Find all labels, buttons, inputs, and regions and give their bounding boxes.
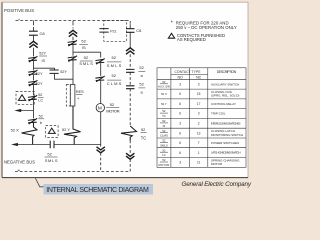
svg-text:52Y: 52Y (36, 72, 43, 76)
svg-text:52: 52 (162, 109, 166, 113)
coil 52X (bolt) (22, 123, 38, 145)
svg-text:52: 52 (141, 127, 145, 132)
table symbol column (158, 80, 170, 167)
svg-text:6: 6 (179, 102, 181, 106)
capacitor C8 (right) (126, 29, 135, 33)
branch to capacitor 52Y (34, 68, 55, 70)
svg-text:(SPRG. REL. SOL'D): (SPRG. REL. SOL'D) (211, 94, 239, 98)
motor M 52/MOTOR (96, 104, 104, 112)
svg-text:General Electric Company: General Electric Company (182, 181, 252, 188)
svg-text:3: 3 (198, 112, 200, 116)
contact 52/SMLS (motor leg) (95, 58, 104, 64)
wire (33, 85, 35, 95)
svg-text:P.D.: P.D. (110, 29, 117, 33)
svg-text:RES: RES (76, 90, 84, 94)
svg-text:SMLS: SMLS (160, 143, 168, 147)
capacitor P.D. (99, 29, 108, 32)
svg-text:52: 52 (110, 102, 115, 107)
wire (33, 100, 35, 118)
dashed wire (129, 141, 131, 154)
wire stub (dashed) (33, 23, 35, 27)
positive bus (16, 21, 131, 25)
contact 52/SMLS (left leg) (68, 56, 77, 62)
svg-text:POWER SWITCHES: POWER SWITCHES (211, 141, 239, 145)
svg-text:DESCRIPTION: DESCRIPTION (217, 70, 237, 74)
wire (72, 37, 74, 41)
svg-text:52Y: 52Y (39, 52, 46, 56)
svg-text:3: 3 (198, 82, 200, 86)
svg-text:2: 2 (198, 122, 200, 126)
svg-text:6: 6 (179, 151, 181, 155)
wire stub (dashed) (72, 23, 74, 29)
dashed box with triangle (SMLS) (46, 126, 59, 138)
lower rail with arrow (18, 144, 51, 146)
svg-text:1: 1 (198, 151, 200, 155)
svg-text:AS REQUIRED: AS REQUIRED (177, 37, 206, 42)
svg-text:LC: LC (38, 99, 43, 103)
svg-text:NC: NC (196, 75, 202, 79)
contact 52/CLMS (95, 76, 104, 82)
svg-text:52Y: 52Y (60, 70, 67, 74)
contact 52/b (28, 118, 37, 124)
table NO / NC values (179, 82, 200, 164)
svg-text:250 v – DC OPERATION ONLY: 250 v – DC OPERATION ONLY (176, 25, 237, 30)
wire (100, 81, 102, 104)
wire (33, 61, 35, 70)
svg-text:AUXILIARY SWITCH: AUXILIARY SWITCH (211, 82, 239, 86)
disconnect chevron up (middle) (69, 30, 77, 36)
svg-text:15: 15 (197, 92, 201, 96)
motor leg wire (100, 52, 102, 57)
callout leader (35, 178, 43, 187)
disconnect chevron up (right) (126, 48, 134, 55)
resistor RES with dashed shunt box (66, 85, 70, 107)
svg-text:52: 52 (162, 80, 166, 84)
svg-text:NO: NO (177, 75, 183, 79)
svg-text:13: 13 (197, 131, 201, 135)
svg-text:C8: C8 (136, 28, 142, 33)
svg-text:6: 6 (179, 141, 181, 145)
svg-text:TRIP COIL: TRIP COIL (211, 112, 226, 116)
arrow lead left (node) (17, 110, 34, 112)
svg-text:3: 3 (179, 161, 181, 165)
caption INTERNAL SCHEMATIC DIAGRAM (44, 184, 154, 195)
svg-text:52 Y: 52 Y (161, 102, 167, 106)
dashed drop to negative bus (100, 153, 102, 172)
svg-text:7: 7 (198, 141, 200, 145)
svg-text:17: 17 (197, 102, 201, 106)
wire (33, 35, 35, 41)
svg-text:3: 3 (179, 82, 181, 86)
svg-text:52: 52 (84, 55, 89, 60)
wire down to resistor (72, 61, 74, 85)
svg-text:b: b (40, 121, 42, 125)
svg-text:INTERNAL SCHEMATIC DIAGRAM: INTERNAL SCHEMATIC DIAGRAM (46, 187, 149, 194)
svg-text:LATCH CHECKING SWITCH: LATCH CHECKING SWITCH (211, 151, 241, 155)
dashed wire (129, 54, 131, 69)
wire (100, 63, 102, 76)
svg-text:TC: TC (162, 114, 166, 118)
svg-text:MOTOR: MOTOR (106, 108, 120, 113)
svg-text:52: 52 (139, 82, 144, 87)
svg-text:INTERLOCKING SWITCHES: INTERLOCKING SWITCHES (211, 121, 241, 125)
page sheet (2, 2, 248, 177)
svg-text:SMLS: SMLS (79, 61, 93, 66)
svg-text:52 X: 52 X (161, 92, 167, 96)
svg-text:3: 3 (179, 122, 181, 126)
svg-text:52: 52 (162, 148, 166, 152)
chevron down (motor leg) (97, 147, 105, 153)
dashed wire (129, 89, 131, 126)
svg-text:52: 52 (81, 38, 86, 43)
svg-text:CONTROL RELAY: CONTROL RELAY (211, 102, 236, 106)
note: triangle contacts (168, 33, 174, 38)
svg-text:6: 6 (179, 112, 181, 116)
wire + branch to motor leg (73, 45, 101, 56)
switch 52/SMLS plates on rail (50, 141, 54, 149)
svg-text:SMLS: SMLS (45, 158, 58, 163)
negative bus (18, 169, 20, 171)
capacitor C8 (29, 31, 38, 35)
svg-text:52: 52 (162, 119, 166, 123)
coil 52Y (bolt) (64, 106, 81, 145)
contact 52Y/IS (28, 56, 37, 62)
contact 52/LC (28, 95, 37, 101)
dashed box with triangle (LC furnished as required) (16, 92, 34, 105)
dashed wire (129, 72, 131, 86)
svg-text:52Y: 52Y (36, 82, 43, 86)
P.D. box (104, 21, 127, 42)
contact 52Y upper (28, 70, 37, 76)
svg-text:52 Y: 52 Y (62, 127, 70, 132)
svg-text:52: 52 (39, 115, 43, 119)
contact 52/a upper (126, 69, 135, 72)
node tick left wire (33, 21, 35, 23)
svg-text:CLMS: CLMS (160, 134, 168, 138)
contact 52/IS (68, 40, 77, 46)
svg-text:11: 11 (197, 161, 201, 165)
svg-text:M: M (98, 106, 102, 112)
svg-text:NEGATIVE BUS: NEGATIVE BUS (4, 159, 35, 164)
wire (33, 75, 35, 81)
disconnect chevron up (29, 41, 37, 47)
svg-text:52 X: 52 X (11, 128, 20, 133)
svg-text:AUX.SW: AUX.SW (158, 85, 170, 89)
svg-text:52: 52 (38, 93, 42, 97)
contact 52/a lower (126, 86, 135, 89)
svg-text:52: 52 (112, 55, 117, 60)
svg-text:CONTACT TYPE: CONTACT TYPE (175, 70, 201, 74)
svg-text:MOTOR: MOTOR (211, 162, 223, 166)
svg-text:MOTOR: MOTOR (158, 163, 169, 167)
wire (33, 48, 35, 57)
capacitor 52Y (50, 70, 59, 73)
svg-text:MONITORING SWITCH: MONITORING SWITCH (211, 133, 243, 137)
svg-text:*: * (171, 21, 173, 27)
svg-text:CLMS: CLMS (107, 81, 122, 86)
svg-text:52: 52 (112, 73, 117, 78)
svg-text:52: 52 (139, 65, 144, 70)
svg-text:SMLS: SMLS (107, 63, 122, 68)
svg-text:IS: IS (82, 45, 86, 50)
contact 52Y lower (28, 80, 37, 86)
svg-text:TC: TC (141, 136, 147, 141)
svg-text:C8: C8 (40, 31, 46, 36)
svg-text:LC: LC (162, 153, 166, 157)
svg-text:6: 6 (179, 131, 181, 135)
dashed drop (129, 159, 131, 171)
svg-text:6: 6 (179, 92, 181, 96)
svg-text:52: 52 (162, 158, 166, 162)
table descriptions (211, 82, 243, 166)
coil 52/TC (bolt) (121, 126, 137, 141)
wire (129, 32, 131, 48)
right wire stub (129, 24, 131, 29)
svg-text:52: 52 (47, 152, 52, 157)
svg-text:52: 52 (162, 129, 166, 133)
svg-text:POSITIVE BUS: POSITIVE BUS (4, 8, 34, 13)
svg-text:IS: IS (42, 59, 46, 63)
svg-text:IS: IS (163, 124, 166, 128)
wire to rail (100, 112, 102, 147)
svg-text:52: 52 (162, 139, 166, 143)
device table (157, 68, 246, 168)
chevron down (right) (126, 153, 134, 159)
middle wire node tick (72, 21, 74, 23)
